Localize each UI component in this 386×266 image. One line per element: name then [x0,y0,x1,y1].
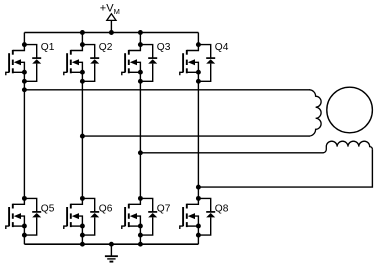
inductor: stepper winding B (horizontal coil) [323,141,373,153]
svg-text:Q1: Q1 [41,42,55,53]
transistor Q5 [6,196,27,229]
body diode of Q1 [22,45,41,84]
svg-text:Q8: Q8 [215,203,229,214]
wire: phase A- (col 2 to winding bottom) [80,134,310,139]
wire: phase A+ (col 1 to winding top) [22,87,310,92]
wire: column 1 vertical segments [23,33,25,245]
motor rotor circle [327,87,373,133]
body diode of Q4 [196,45,215,84]
body diode of Q6 [80,198,99,237]
wire: phase B- (col 4 to winding right) [196,149,372,189]
transistor Q3 [122,42,143,75]
inductor: stepper winding A (vertical coil) [309,90,321,136]
node: rail junctions [80,30,143,247]
body diode of Q3 [138,45,157,84]
transistor Q1 [6,42,27,75]
svg-text:Q2: Q2 [99,42,113,53]
transistor Q8 [180,196,201,229]
body diode of Q2 [80,45,99,84]
transistor Q2 [64,42,85,75]
body diode of Q5 [22,198,41,237]
svg-text:Q5: Q5 [41,203,55,214]
wire: column 4 vertical segments [197,33,199,245]
wire: column 2 vertical segments [81,33,83,245]
transistor Q6 [64,196,85,229]
bottom ground rail [24,243,198,245]
body diode of Q7 [138,198,157,237]
transistor Q7 [122,196,143,229]
svg-text:Q6: Q6 [99,203,113,214]
top supply rail [24,32,198,34]
+VM supply symbol [107,14,116,35]
wire: column 3 vertical segments [139,33,141,245]
svg-text:Q3: Q3 [157,42,171,53]
svg-text:Q4: Q4 [215,42,229,53]
body diode of Q8 [196,198,215,237]
ground symbol [105,242,118,262]
transistor Q4 [180,42,201,75]
wire: phase B+ (col 3 to winding left) [138,150,324,155]
svg-text:Q7: Q7 [157,203,171,214]
